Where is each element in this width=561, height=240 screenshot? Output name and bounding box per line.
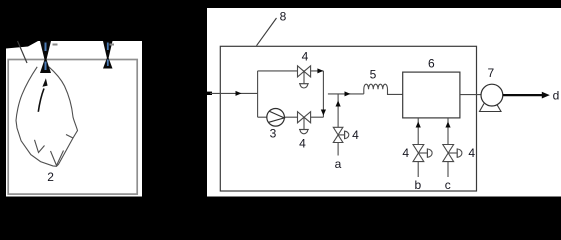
speck right [110, 44, 115, 46]
leader line 1 [18, 41, 28, 63]
svg-text:6: 6 [428, 57, 435, 71]
outlet arrow [542, 92, 550, 99]
svg-text:2: 2 [47, 170, 54, 184]
svg-text:d: d [553, 88, 560, 102]
svg-text:b: b [414, 178, 421, 192]
svg-text:4: 4 [302, 50, 309, 64]
pump 3 [267, 109, 285, 127]
svg-text:4: 4 [468, 146, 475, 160]
svg-text:4: 4 [352, 128, 359, 142]
svg-text:5: 5 [370, 67, 377, 81]
branch a up arrow [336, 101, 341, 107]
valve b V4 [413, 145, 432, 162]
branch b wire [417, 118, 419, 145]
loop right down arrow [321, 110, 326, 116]
left white panel [6, 41, 142, 197]
clamp left [40, 41, 51, 60]
main wire arrow [345, 91, 351, 96]
outlet wire d [503, 94, 543, 96]
garment fold bottom-center [51, 151, 64, 166]
loop bottom wire [258, 116, 324, 118]
drying chamber box [8, 60, 137, 195]
branch c wire [447, 118, 449, 145]
right white panel [207, 8, 561, 197]
heater 5 coil [364, 84, 403, 94]
branch c up arrow [445, 122, 450, 128]
clamp right [103, 41, 113, 58]
svg-text:a: a [335, 157, 342, 171]
inlet arrow [236, 91, 242, 96]
branch a wire [337, 94, 339, 128]
svg-text:c: c [445, 178, 451, 192]
garment fold bottom-left [35, 140, 45, 153]
svg-text:7: 7 [487, 66, 494, 80]
branch b up arrow [416, 122, 421, 128]
valve bottom V4 [298, 112, 311, 134]
loop top wire [258, 70, 324, 72]
inlet wire [210, 92, 258, 94]
box 6 [403, 72, 460, 118]
svg-text:8: 8 [280, 10, 287, 24]
inlet stub [205, 92, 212, 95]
svg-text:4: 4 [299, 137, 306, 151]
valve c V4 [443, 145, 462, 162]
leader 8 [257, 18, 277, 46]
wire below valve c [447, 162, 449, 177]
wire box6 to pump7 [460, 94, 481, 96]
speck left [53, 44, 58, 46]
box 8 [220, 46, 476, 191]
main wire [328, 93, 364, 95]
svg-text:3: 3 [270, 127, 277, 141]
garment outline 2 [16, 67, 78, 167]
wire below valve a [337, 143, 339, 156]
wire below valve b [417, 162, 419, 177]
arrow inside garment [38, 89, 44, 112]
loop top arrow [317, 68, 323, 73]
garment fold dart right [66, 135, 73, 139]
black skew wedge top-left [6, 41, 38, 49]
loop left wire [257, 71, 259, 117]
valve top V4 [298, 66, 311, 88]
pump 7 [480, 84, 503, 111]
valve a V4 [333, 127, 349, 142]
loop right wire [322, 71, 324, 117]
svg-text:4: 4 [402, 146, 409, 160]
